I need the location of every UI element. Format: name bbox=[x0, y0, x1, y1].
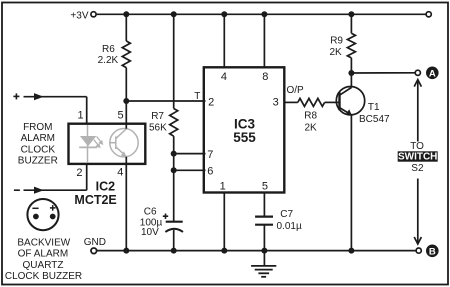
resistor R7 bbox=[170, 14, 178, 221]
node pin7 junction bbox=[171, 151, 177, 157]
svg-text:5: 5 bbox=[262, 181, 268, 193]
wire pin5 to C7 bbox=[263, 193, 265, 217]
svg-text:ALARM: ALARM bbox=[21, 133, 55, 144]
wire pin4 drop to rail bbox=[125, 157, 127, 251]
phototransistor inside IC2 bbox=[110, 129, 138, 157]
terminal B circle bbox=[416, 248, 421, 253]
wire pin7 stub bbox=[174, 153, 206, 155]
svg-text:R9: R9 bbox=[330, 36, 343, 47]
svg-text:QUARTZ: QUARTZ bbox=[23, 260, 64, 271]
svg-text:R6: R6 bbox=[102, 44, 115, 55]
svg-text:5: 5 bbox=[118, 110, 124, 122]
label SWITCH badge bbox=[398, 151, 438, 161]
svg-text:BUZZER: BUZZER bbox=[18, 156, 58, 167]
node collector junction bbox=[348, 70, 354, 76]
svg-text:O/P: O/P bbox=[287, 85, 305, 96]
svg-text:56K: 56K bbox=[149, 123, 167, 134]
svg-text:T1: T1 bbox=[368, 102, 380, 113]
GND terminal bbox=[91, 248, 97, 254]
capacitor C7 bbox=[255, 217, 273, 251]
label BACKVIEW OF ALARM QUARTZ CLOCK BUZZER bbox=[5, 238, 82, 283]
terminal A badge bbox=[426, 67, 439, 80]
arrow plus input bbox=[34, 93, 44, 100]
svg-text:MCT2E: MCT2E bbox=[74, 193, 116, 207]
wire pin1 drop bbox=[86, 97, 88, 124]
svg-text:BC547: BC547 bbox=[359, 114, 390, 125]
transistor Q1: T1 BC547 bbox=[336, 73, 364, 251]
svg-text:C7: C7 bbox=[280, 209, 293, 220]
wire pin3 stub bbox=[284, 101, 298, 103]
svg-text:4: 4 bbox=[221, 71, 227, 83]
node top rail R6 bbox=[123, 11, 129, 17]
wire pin6 stub bbox=[174, 169, 206, 171]
node bottom rail C6 bbox=[171, 248, 177, 254]
svg-text:S2: S2 bbox=[411, 163, 424, 174]
svg-text:IC2: IC2 bbox=[96, 180, 116, 194]
svg-text:B: B bbox=[429, 246, 436, 257]
svg-text:7: 7 bbox=[207, 149, 213, 161]
svg-text:GND: GND bbox=[84, 237, 106, 248]
arrow minus input bbox=[34, 187, 44, 194]
wire minus input bbox=[24, 189, 87, 191]
wire T line to 555 pin 2 bbox=[126, 100, 205, 102]
plus input label bbox=[13, 93, 19, 99]
node bottom rail pin1 bbox=[221, 248, 227, 254]
node top rail pin4 bbox=[221, 11, 227, 17]
node top rail R7 bbox=[171, 11, 177, 17]
svg-text:R7: R7 bbox=[151, 111, 164, 122]
svg-text:8: 8 bbox=[262, 71, 268, 83]
svg-text:CLOCK BUZZER: CLOCK BUZZER bbox=[5, 271, 82, 282]
resistor R8 bbox=[298, 98, 325, 106]
svg-text:FROM: FROM bbox=[23, 122, 52, 133]
svg-text:4: 4 bbox=[117, 167, 123, 179]
svg-text:2.2K: 2.2K bbox=[98, 55, 119, 66]
node bottom rail emitter bbox=[348, 248, 354, 254]
node bottom rail C7 ground bbox=[261, 248, 267, 254]
node T junction bbox=[123, 98, 129, 104]
svg-text:OF ALARM: OF ALARM bbox=[18, 249, 69, 260]
+3V terminal bbox=[91, 12, 96, 17]
label FROM ALARM CLOCK BUZZER bbox=[18, 122, 58, 167]
svg-text:2K: 2K bbox=[304, 123, 317, 134]
svg-text:SWITCH: SWITCH bbox=[398, 152, 437, 163]
node top rail R9 bbox=[348, 11, 354, 17]
svg-text:TO: TO bbox=[410, 141, 424, 152]
op-amp U1: IC3 555 box bbox=[204, 67, 284, 192]
arrow down to B bbox=[414, 179, 421, 245]
svg-text:0.01µ: 0.01µ bbox=[277, 221, 302, 232]
LED light arrows bbox=[94, 136, 103, 147]
wire bottom ground rail bbox=[97, 250, 416, 252]
svg-text:T: T bbox=[194, 91, 200, 102]
svg-text:R8: R8 bbox=[304, 111, 317, 122]
resistor R6 bbox=[122, 14, 130, 101]
wire top +3V rail bbox=[97, 13, 426, 15]
buzzer backview symbol bbox=[27, 199, 58, 230]
resistor R9 bbox=[347, 14, 355, 73]
arrow up to A bbox=[414, 80, 421, 142]
svg-text:2: 2 bbox=[76, 167, 82, 179]
optocoupler U2: IC2 MCT2E box bbox=[69, 124, 146, 164]
svg-text:555: 555 bbox=[233, 130, 256, 145]
terminal B badge bbox=[426, 245, 439, 258]
svg-text:1: 1 bbox=[220, 180, 226, 192]
wire R8 to base bbox=[325, 101, 340, 103]
svg-text:+3V: +3V bbox=[70, 10, 88, 21]
wire pin5 drop from T node bbox=[125, 101, 127, 129]
top-right rail terminal bbox=[426, 12, 431, 17]
svg-text:C6: C6 bbox=[144, 206, 157, 217]
svg-text:1: 1 bbox=[78, 110, 84, 122]
ground bbox=[251, 251, 276, 277]
wire plus input bbox=[24, 96, 87, 98]
minus input label bbox=[14, 189, 20, 191]
svg-text:3: 3 bbox=[273, 96, 279, 108]
svg-text:10V: 10V bbox=[141, 227, 159, 238]
svg-text:6: 6 bbox=[207, 166, 213, 178]
wire pin2 drop bbox=[86, 164, 88, 190]
pin 4 bbox=[223, 14, 225, 67]
pin 8 bbox=[263, 14, 265, 67]
wire to terminal A bbox=[351, 72, 414, 74]
terminal A circle bbox=[415, 70, 420, 75]
svg-text:2K: 2K bbox=[329, 47, 342, 58]
svg-text:A: A bbox=[429, 68, 436, 79]
node pin6 junction bbox=[171, 167, 177, 173]
LED inside IC2 bbox=[79, 125, 97, 163]
svg-text:BACKVIEW: BACKVIEW bbox=[17, 238, 70, 249]
node bottom rail pin4 IC2 bbox=[123, 248, 129, 254]
capacitor C6 bbox=[163, 214, 183, 251]
node top rail pin8 bbox=[261, 11, 267, 17]
svg-text:2: 2 bbox=[208, 96, 214, 108]
wire pin1 to ground rail bbox=[223, 193, 225, 251]
svg-text:CLOCK: CLOCK bbox=[21, 144, 56, 155]
